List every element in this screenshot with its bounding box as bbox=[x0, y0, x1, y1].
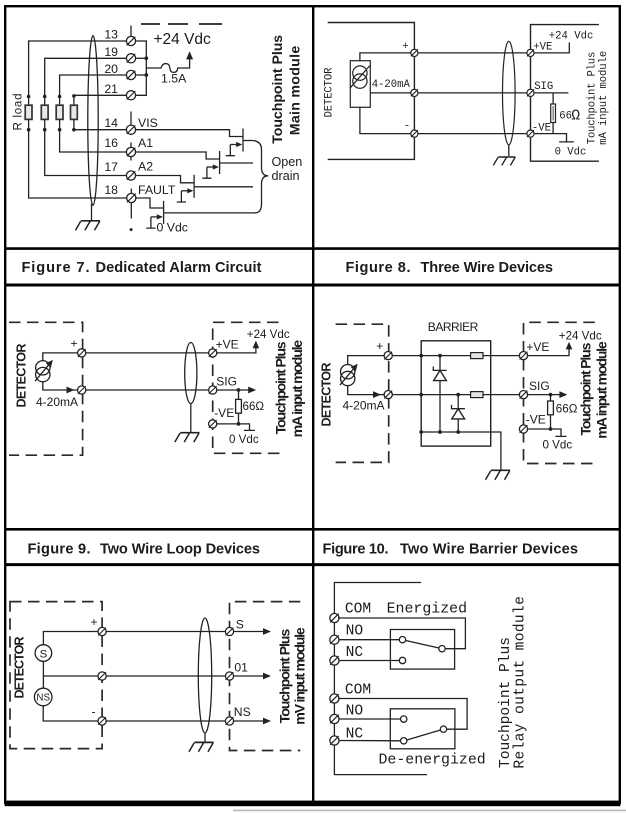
module title (rotated bold): Touchpoint Plus / mA input module bbox=[274, 340, 306, 438]
svg-text:Touchpoint Plus: Touchpoint Plus bbox=[578, 342, 594, 435]
NC2 wire bbox=[339, 740, 401, 742]
svg-text:VIS: VIS bbox=[138, 116, 158, 130]
wire-end dot below terminal 18 bbox=[130, 228, 133, 231]
svg-text:+: + bbox=[376, 339, 383, 353]
detector - terminal bbox=[411, 130, 418, 137]
svg-text:mA input module: mA input module bbox=[595, 341, 611, 439]
detector dashed box bbox=[9, 322, 83, 455]
Q2 drain wire bbox=[220, 162, 253, 164]
middle wire to terminal 01 with arrow bbox=[43, 673, 271, 680]
svg-text:Ω: Ω bbox=[571, 108, 580, 124]
svg-text:0 Vdc: 0 Vdc bbox=[157, 221, 188, 235]
SIG terminal bbox=[527, 89, 534, 96]
wire R2 up to terminal 19 bbox=[45, 58, 127, 96]
resistor 66 ohm bbox=[548, 395, 554, 429]
sensor circles bbox=[353, 66, 367, 80]
detector + terminal bbox=[384, 352, 392, 360]
svg-text:Touchpoint Plus: Touchpoint Plus bbox=[274, 341, 290, 434]
terminal 17 bbox=[126, 171, 135, 180]
+24V arrowhead bbox=[253, 341, 260, 349]
detector symbol arrow bbox=[340, 364, 358, 385]
detector - terminal bbox=[98, 717, 106, 725]
Q4 drain wire bbox=[164, 212, 256, 214]
svg-text:0 Vdc: 0 Vdc bbox=[555, 147, 587, 159]
transistor Q4 (FAULT) bbox=[146, 201, 163, 228]
fuse (lower) bbox=[471, 392, 483, 398]
cable shield ellipse bbox=[88, 36, 98, 206]
svg-text:SIG: SIG bbox=[216, 374, 237, 388]
svg-text:4-20mA: 4-20mA bbox=[36, 395, 78, 409]
ground (barrier) bbox=[486, 470, 511, 479]
NO2 terminal bbox=[330, 714, 339, 723]
resistor R3 bbox=[56, 97, 63, 130]
junction dot resistor bottom bbox=[237, 422, 241, 426]
module title (rotated, mono): Touchpoint Plus / Relay output module bbox=[498, 596, 529, 769]
detector dashed box bbox=[336, 324, 389, 462]
wire +VE to +24V stub bbox=[534, 43, 569, 53]
junction dots lower wire bbox=[419, 393, 460, 397]
caption band row 2 borders bbox=[5, 529, 620, 564]
svg-text:Relay output module: Relay output module bbox=[512, 596, 528, 769]
svg-text:DETECTOR: DETECTOR bbox=[319, 363, 333, 427]
S terminal bbox=[225, 627, 233, 635]
-VE terminal bbox=[527, 130, 534, 137]
wire R4 bottom to terminal 14 bbox=[74, 129, 127, 131]
detector symbol circles bbox=[36, 361, 50, 375]
resistor R2 bbox=[41, 97, 48, 130]
ground (shield) bbox=[189, 742, 214, 751]
wire -VE to 0V tick bbox=[534, 134, 573, 142]
resistor 66 ohm bbox=[551, 93, 556, 134]
detector - terminal bbox=[78, 386, 86, 394]
shield ground stem bbox=[204, 733, 206, 742]
svg-text:NO: NO bbox=[346, 704, 364, 720]
svg-text:DETECTOR: DETECTOR bbox=[13, 637, 27, 699]
01 terminal bbox=[225, 672, 233, 680]
junction bus/19 bbox=[144, 56, 148, 60]
module title: Touchpoint Plus Main module (rotated) bbox=[270, 35, 304, 144]
fuse (top) bbox=[471, 353, 483, 359]
svg-text:Touchpoint Plus: Touchpoint Plus bbox=[587, 52, 599, 145]
+VE terminal bbox=[209, 349, 217, 357]
wire bus to ground bbox=[491, 432, 501, 470]
gate wire FAULT to Q4 bbox=[136, 198, 163, 208]
svg-text:66Ω: 66Ω bbox=[243, 400, 265, 413]
relay 2 switch arm (de-energized: COM-NC) bbox=[407, 730, 441, 740]
NO2 wire bbox=[339, 718, 401, 720]
top wire detector to +VE bbox=[43, 353, 209, 361]
NC1 wire bbox=[339, 660, 400, 662]
ground (shield) bbox=[175, 433, 200, 442]
junction dot resistor top bbox=[237, 388, 241, 392]
+24V arrowhead bbox=[566, 342, 573, 350]
svg-text:14: 14 bbox=[104, 116, 118, 130]
COM1 wire around relay box bbox=[339, 618, 466, 649]
svg-text:mA input module: mA input module bbox=[598, 51, 610, 145]
module title (rotated, mono): Touchpoint Plus / mA input module bbox=[587, 51, 610, 145]
SIG terminal bbox=[209, 386, 217, 394]
svg-text:66Ω: 66Ω bbox=[556, 402, 578, 415]
svg-text:+VE: +VE bbox=[216, 337, 239, 351]
svg-text:18: 18 bbox=[104, 183, 118, 197]
detector mid terminal bbox=[411, 89, 418, 96]
svg-text:Dedicated Alarm Circuit: Dedicated Alarm Circuit bbox=[96, 260, 262, 276]
svg-text:+24 Vdc: +24 Vdc bbox=[559, 329, 602, 342]
wire +VE to +24V arrow bbox=[528, 348, 569, 355]
mV module dashed box bbox=[230, 602, 301, 751]
NO1 wire bbox=[339, 639, 400, 641]
junction dots ground bus bbox=[419, 430, 460, 434]
terminal 20 bbox=[126, 70, 135, 79]
svg-text:20: 20 bbox=[104, 62, 118, 76]
wire R4 to terminal 21 bbox=[74, 95, 127, 96]
sensor NS circle bbox=[34, 688, 52, 706]
relay 1 box bbox=[390, 630, 454, 670]
wire sensor mid to SIG bbox=[370, 92, 527, 94]
svg-text:NS: NS bbox=[234, 705, 251, 719]
SIG terminal bbox=[519, 391, 527, 399]
bottom wire detector to SIG bbox=[348, 386, 520, 395]
Q1 drain wire bbox=[244, 140, 253, 142]
label Open drain bbox=[272, 155, 303, 183]
svg-text:+: + bbox=[71, 337, 78, 351]
junction dots resistor bottoms bbox=[27, 128, 76, 132]
vertical link S-NS bbox=[42, 661, 44, 688]
terminal 16 bbox=[126, 147, 135, 156]
cable shield ellipse bbox=[185, 343, 197, 404]
wire R3 bottom to terminal 16 bbox=[60, 130, 127, 152]
mA module dashed box bbox=[524, 322, 595, 463]
svg-text:mA input module: mA input module bbox=[290, 340, 306, 438]
current direction arrow bbox=[373, 391, 381, 398]
-VE terminal bbox=[209, 420, 217, 428]
junction dot resistor top bbox=[549, 393, 553, 397]
junction dot resistor bottom bbox=[549, 427, 553, 431]
shield ground stem bbox=[91, 204, 93, 221]
COM2 terminal bbox=[330, 694, 339, 703]
svg-text:FAULT: FAULT bbox=[138, 183, 176, 197]
svg-text:19: 19 bbox=[104, 45, 118, 59]
svg-text:Energized: Energized bbox=[387, 602, 467, 618]
junction dots top wire bbox=[419, 354, 442, 358]
barrier box bbox=[421, 341, 491, 446]
shield ground stem bbox=[190, 404, 192, 433]
svg-text:+: + bbox=[402, 41, 408, 53]
svg-text:Two Wire Barrier Devices: Two Wire Barrier Devices bbox=[400, 542, 578, 558]
terminal 19 bbox=[126, 54, 135, 63]
relay 1 common contact bbox=[439, 646, 445, 652]
wire stub above terminal 13 bbox=[130, 26, 132, 37]
wire SIG with arrow bbox=[528, 391, 568, 398]
svg-text:NC: NC bbox=[346, 645, 364, 661]
shield ground stem bbox=[508, 145, 510, 156]
module title (rotated bold): Touchpoint Plus / mA input module bbox=[578, 341, 610, 439]
relay 2 NC contact bbox=[401, 738, 407, 744]
gate wire A1 to Q2 bbox=[136, 152, 219, 159]
svg-text:13: 13 bbox=[104, 28, 118, 42]
stub above terminal 14 bbox=[130, 112, 132, 126]
-VE terminal bbox=[519, 425, 527, 433]
svg-text:+VE: +VE bbox=[533, 42, 552, 54]
terminal 13 bbox=[126, 36, 135, 45]
svg-text:NS: NS bbox=[36, 693, 50, 704]
svg-text:0 Vdc: 0 Vdc bbox=[229, 433, 259, 446]
svg-text:0 Vdc: 0 Vdc bbox=[543, 439, 573, 452]
bottom wire detector to SIG bbox=[43, 382, 209, 390]
svg-text:1.5A: 1.5A bbox=[161, 72, 187, 86]
svg-text:De-energized: De-energized bbox=[379, 752, 486, 768]
mA module outline bbox=[531, 25, 599, 162]
stub above terminal 18 bbox=[130, 189, 132, 194]
svg-text:Figure 9.: Figure 9. bbox=[28, 542, 91, 558]
detector symbol arrow bbox=[35, 360, 53, 381]
center vertical divider bbox=[312, 6, 314, 802]
NS terminal bbox=[225, 717, 233, 725]
detector - terminal bbox=[384, 391, 392, 399]
svg-text:-VE: -VE bbox=[532, 122, 551, 134]
COM2 wire around relay box bbox=[339, 699, 467, 730]
Q3 drain wire bbox=[195, 186, 253, 188]
svg-text:Main module: Main module bbox=[288, 46, 304, 136]
gate wire A2 to Q3 bbox=[136, 176, 194, 183]
wire -VE to 0V tick bbox=[528, 429, 566, 436]
COM1 terminal bbox=[330, 613, 339, 622]
zener diode D2 bbox=[452, 395, 465, 432]
terminal bus with top and bottom stubs bbox=[334, 583, 426, 775]
svg-text:+: + bbox=[91, 615, 98, 629]
transistor Q1 (VIS) bbox=[226, 129, 243, 156]
bottom page edge gray line bbox=[233, 809, 626, 811]
terminal 21 bbox=[126, 91, 135, 100]
cable shield ellipse bbox=[198, 618, 211, 733]
top wire detector to +VE bbox=[348, 356, 520, 365]
wire sensor top to +VE bbox=[360, 53, 527, 61]
svg-text:+24 Vdc: +24 Vdc bbox=[154, 31, 212, 48]
svg-text:A1: A1 bbox=[138, 136, 153, 150]
ground (shield) bbox=[76, 221, 101, 230]
svg-text:66: 66 bbox=[559, 111, 572, 123]
svg-text:mV input module: mV input module bbox=[293, 627, 309, 725]
transistor Q3 (A2) bbox=[177, 175, 194, 202]
NC2 terminal bbox=[330, 736, 339, 745]
R load resistor bank: wire R1 up to terminal 13 bbox=[29, 41, 127, 97]
module title (rotated bold): Touchpoint Plus / mV input module bbox=[277, 627, 308, 725]
svg-text:21: 21 bbox=[104, 82, 118, 96]
detector + terminal bbox=[78, 349, 86, 357]
transistor Q2 (A1) bbox=[202, 151, 219, 178]
wire SIG with arrow bbox=[217, 387, 256, 394]
svg-text:Touchpoint Plus: Touchpoint Plus bbox=[277, 629, 293, 724]
NC1 terminal bbox=[330, 656, 339, 665]
svg-text:01: 01 bbox=[234, 661, 248, 675]
4-20mA sensor body bbox=[350, 61, 370, 108]
relay 2 common contact bbox=[440, 726, 446, 732]
detector dashed box bbox=[10, 602, 102, 749]
wire terminal19 to bus bbox=[136, 57, 147, 59]
sensor slash bbox=[350, 66, 370, 89]
svg-text:Figure 7.: Figure 7. bbox=[22, 260, 90, 276]
svg-text:+24 Vdc: +24 Vdc bbox=[247, 328, 290, 341]
stub below terminal 18 bbox=[130, 203, 132, 219]
svg-text:Touchpoint Plus: Touchpoint Plus bbox=[270, 35, 286, 144]
barrier internal ground bus bbox=[421, 431, 491, 433]
bottom wire NS to terminal NS with arrow bbox=[43, 706, 271, 725]
relay 1 switch arm (energized: COM-NO) bbox=[406, 641, 439, 649]
svg-text:SIG: SIG bbox=[534, 81, 553, 93]
wire R2 bottom to terminal 17 bbox=[45, 130, 127, 176]
open drain brace bbox=[253, 141, 269, 213]
svg-text:Three Wire Devices: Three Wire Devices bbox=[421, 260, 554, 276]
wire +VE to +24V arrow bbox=[217, 347, 256, 353]
zener diode D1 bbox=[433, 356, 446, 432]
current direction arrow bbox=[67, 387, 75, 394]
wire terminal20 to bus bbox=[136, 74, 147, 76]
relay 1 NC contact bbox=[399, 657, 405, 663]
resistor R4 bbox=[71, 97, 78, 130]
svg-text:DETECTOR: DETECTOR bbox=[324, 67, 336, 118]
detector mid terminal bbox=[98, 672, 106, 680]
junction dots resistor tops bbox=[27, 94, 76, 98]
wire SIG bbox=[534, 92, 568, 94]
svg-text:A2: A2 bbox=[138, 160, 153, 174]
svg-text:17: 17 bbox=[104, 160, 118, 174]
svg-text:NO: NO bbox=[346, 623, 364, 639]
+VE terminal bbox=[527, 49, 534, 56]
svg-text:COM: COM bbox=[345, 601, 371, 617]
resistor 66 ohm bbox=[236, 390, 242, 424]
junction bus/20 bbox=[144, 73, 148, 77]
svg-text:4-20mA: 4-20mA bbox=[343, 399, 385, 413]
svg-text:Figure 8.: Figure 8. bbox=[346, 260, 411, 276]
svg-text:S: S bbox=[236, 618, 244, 632]
detector enclosure (open left) bbox=[328, 23, 415, 160]
relay 2 NO contact bbox=[401, 716, 407, 722]
svg-text:4-20mA: 4-20mA bbox=[372, 79, 411, 91]
svg-text:R load: R load bbox=[13, 94, 25, 131]
svg-text:BARRIER: BARRIER bbox=[428, 320, 479, 334]
fuse 1.5A bbox=[146, 59, 189, 73]
svg-text:16: 16 bbox=[104, 136, 118, 150]
caption band row 1 borders bbox=[5, 249, 620, 285]
+VE terminal bbox=[519, 352, 527, 360]
svg-text:Figure 10.: Figure 10. bbox=[323, 542, 389, 558]
svg-text:SIG: SIG bbox=[529, 379, 550, 393]
stubs around terminal 16 bbox=[130, 143, 132, 161]
svg-text:S: S bbox=[40, 648, 48, 660]
detector + terminal bbox=[98, 627, 106, 635]
svg-text:DETECTOR: DETECTOR bbox=[14, 344, 28, 408]
resistor R1 bbox=[25, 97, 32, 130]
svg-text:-VE: -VE bbox=[526, 413, 546, 427]
svg-text:Open: Open bbox=[272, 155, 303, 169]
terminal 18 bbox=[127, 193, 136, 202]
cable shield ellipse bbox=[503, 41, 516, 145]
fuse arrow up bbox=[186, 51, 193, 59]
wire sensor bottom to -VE bbox=[360, 107, 527, 133]
svg-text:+24 Vdc: +24 Vdc bbox=[549, 31, 594, 43]
wire terminal13 to +24V bus bbox=[136, 41, 147, 95]
detector symbol circles bbox=[341, 365, 355, 379]
svg-text:-: - bbox=[404, 120, 410, 132]
relay 2 box bbox=[390, 709, 455, 749]
svg-text:drain: drain bbox=[272, 169, 300, 183]
NO1 terminal bbox=[330, 635, 339, 644]
wire R3 up to terminal 20 bbox=[60, 75, 127, 97]
mA module dashed box bbox=[213, 322, 283, 453]
svg-text:COM: COM bbox=[345, 683, 371, 699]
svg-text:+VE: +VE bbox=[526, 340, 549, 354]
dashed +24V rail stub (top) bbox=[141, 23, 222, 25]
gate wire VIS to Q1 bbox=[136, 130, 243, 137]
svg-text:-: - bbox=[92, 704, 96, 718]
sensor S circle bbox=[35, 645, 52, 662]
wire R1 bottom to terminal 18 bbox=[29, 130, 127, 198]
relay 1 NO contact bbox=[399, 637, 405, 643]
svg-text:Two Wire Loop Devices: Two Wire Loop Devices bbox=[100, 542, 260, 558]
svg-text:-VE: -VE bbox=[214, 406, 234, 420]
top wire S to terminal S with arrow bbox=[43, 628, 271, 645]
detector + terminal bbox=[411, 49, 418, 56]
terminal 14 bbox=[126, 125, 135, 134]
wire -VE to 0V tick bbox=[217, 424, 255, 431]
ground (shield) bbox=[493, 157, 515, 165]
